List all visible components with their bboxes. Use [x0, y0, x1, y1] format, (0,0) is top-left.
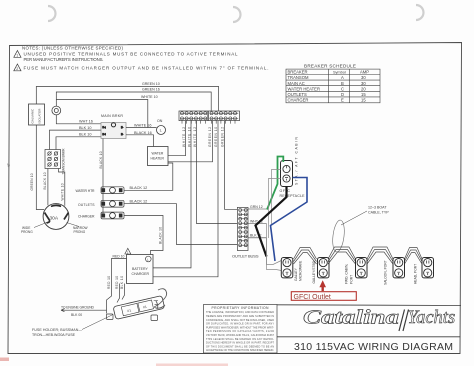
note 2 triangle — [14, 64, 21, 71]
outlet 3 fwd cabin — [345, 258, 368, 285]
svg-text:AMP: AMP — [360, 70, 369, 75]
punch hole left — [48, 6, 56, 21]
svg-text:OR DUPLICATED, IN WHOLE OR IN: OR DUPLICATED, IN WHOLE OR IN PART, FOR … — [206, 323, 274, 326]
outlet 4 saloon port — [384, 258, 405, 286]
svg-text:1: 1 — [16, 54, 18, 58]
wire white 10 label — [59, 169, 65, 206]
receptacle black thin wire — [269, 179, 281, 239]
svg-text:20: 20 — [361, 86, 366, 91]
svg-text:WATER HEATER: WATER HEATER — [288, 86, 321, 91]
title block frame — [277, 305, 461, 337]
buss wht wire to outlet1 — [267, 224, 282, 265]
receptacle white wire — [272, 170, 281, 226]
svg-text:WHITE 16: WHITE 16 — [134, 123, 152, 127]
svg-text:BLK 10: BLK 10 — [79, 126, 91, 130]
svg-text:SALOON, PORT: SALOON, PORT — [384, 260, 388, 285]
indicator lamp ON — [157, 119, 166, 135]
svg-text:FUSE HOLDER; BUSSMAN—: FUSE HOLDER; BUSSMAN— — [32, 328, 82, 332]
breaker schedule table — [286, 69, 380, 103]
svg-text:VICTORY BLVD, WOODLAND HILLS,: VICTORY BLVD, WOODLAND HILLS, CALIFORNIA… — [206, 334, 275, 337]
svg-text:30: 30 — [361, 81, 366, 86]
svg-text:GALLEY/STBD: GALLEY/STBD — [312, 260, 316, 283]
fuse holder — [113, 296, 165, 320]
terminal stud — [52, 106, 61, 115]
wire white 16 to lamp — [126, 123, 157, 127]
svg-text:Yachts: Yachts — [408, 308, 456, 328]
svg-text:OUTLETS: OUTLETS — [288, 92, 308, 97]
gfci outlet red box — [291, 292, 356, 301]
svg-text:310 115VAC WIRING DIAGRAM: 310 115VAC WIRING DIAGRAM — [294, 341, 453, 353]
svg-text:A: A — [341, 75, 344, 80]
svg-text:MAIN AC: MAIN AC — [288, 81, 305, 86]
outlet arcs 3-4 — [367, 247, 393, 264]
cable ellipse — [331, 219, 346, 252]
gfci red arrow — [319, 280, 326, 291]
handwritten squiggle — [155, 289, 167, 309]
svg-text:#1: #1 — [127, 308, 132, 313]
wire outlets breaker to buss — [124, 200, 237, 245]
svg-text:FUSE MUST MATCH CHARGER OUTPUT: FUSE MUST MATCH CHARGER OUTPUT AND BE IN… — [24, 65, 269, 70]
svg-text:HEATER: HEATER — [151, 157, 165, 161]
svg-text:WATER: WATER — [152, 152, 164, 156]
wire white 10 top — [56, 95, 157, 128]
strip stubs — [182, 121, 235, 124]
green wire to receptacle — [267, 157, 283, 210]
buss WHT stub — [248, 219, 267, 223]
pink scan mark bottom center — [156, 364, 228, 366]
svg-text:PORT: PORT — [350, 275, 354, 284]
wide prong label — [21, 223, 47, 235]
AC terminal strip — [179, 111, 240, 121]
wire white12 to water heater — [168, 121, 186, 156]
svg-text:BLK 10: BLK 10 — [79, 133, 91, 137]
svg-text:PER MANUFACTURER'S INSTRUCTION: PER MANUFACTURER'S INSTRUCTIONS. — [24, 57, 104, 62]
wire black 10 label — [43, 169, 48, 206]
fuse holder lug left — [107, 314, 114, 320]
svg-text:RED 10: RED 10 — [115, 276, 119, 289]
blue feed wire — [271, 178, 308, 262]
fuse holder lug right — [151, 315, 158, 321]
notes heading — [22, 45, 124, 50]
svg-text:B: B — [341, 81, 344, 86]
svg-text:+F: +F — [6, 163, 11, 168]
outlet arcs 4-5 — [405, 248, 423, 265]
svg-text:PRONG: PRONG — [21, 230, 33, 234]
strip wire labels — [182, 127, 225, 147]
svg-text:15: 15 — [361, 92, 366, 97]
svg-text:HEREIN ARE PROPRIETARY AND ARE: HEREIN ARE PROPRIETARY AND ARE SUBMITTED… — [206, 315, 274, 318]
svg-text:TRANSOM: TRANSOM — [288, 75, 309, 80]
buss GRN stub — [248, 205, 267, 209]
svg-text:RECEPTACLE: RECEPTACLE — [280, 194, 306, 198]
svg-text:TRON—HEB.W/20A FUSE: TRON—HEB.W/20A FUSE — [32, 333, 76, 337]
svg-text:PRONG: PRONG — [74, 230, 86, 234]
wire green12 to water heater — [168, 121, 213, 162]
svg-text:BREAKER: BREAKER — [288, 70, 308, 75]
water heater — [148, 147, 169, 166]
catalina yachts logo — [303, 307, 455, 331]
svg-text:30: 30 — [361, 75, 366, 80]
svg-text:ACCEPTANCE OF THE CONDITIONS S: ACCEPTANCE OF THE CONDITIONS SPECIFIED H… — [206, 349, 274, 352]
wire white10 to charger — [153, 121, 191, 268]
svg-text:DUCTIONS HEREOF IN WHOLE OR IN: DUCTIONS HEREOF IN WHOLE OR IN PART. REC… — [206, 342, 274, 345]
svg-text:WHITE 10: WHITE 10 — [141, 95, 158, 99]
svg-text:GREEN 10: GREEN 10 — [30, 173, 34, 190]
main breaker MAIN BRKR — [101, 114, 126, 139]
outlet arcs 1-2 — [294, 248, 317, 265]
galvanic isolator — [29, 104, 45, 125]
battery charger — [127, 255, 154, 284]
svg-text:12–3 BOAT: 12–3 BOAT — [368, 206, 387, 210]
fuse holder label — [32, 315, 113, 338]
wire black 16 — [126, 131, 154, 147]
outlet 5 head port — [414, 258, 434, 285]
svg-text:TEN PERMISSION OF CATALINA YAC: TEN PERMISSION OF CATALINA YACHTS, 21200 — [206, 330, 275, 333]
wire green10 to charger — [153, 121, 218, 277]
pink scan mark bottom left — [0, 358, 9, 362]
boat cable label — [341, 206, 389, 226]
svg-text:E: E — [341, 98, 344, 103]
svg-text:WATER HTR: WATER HTR — [76, 189, 96, 193]
gfic receptacle — [280, 136, 306, 198]
charger breaker — [78, 212, 124, 219]
svg-text:Catalina: Catalina — [303, 307, 399, 329]
left margin tick — [6, 163, 11, 168]
punch hole center — [233, 7, 241, 22]
svg-text:THE LICENSE, INFORMATION, AND: THE LICENSE, INFORMATION, AND DATA CONTA… — [206, 311, 274, 314]
buss BLK stub — [248, 234, 267, 238]
svg-text:RED 10: RED 10 — [107, 276, 111, 289]
svg-text:GALLEY: GALLEY — [294, 267, 298, 281]
narrow prong label — [67, 223, 88, 235]
breaker schedule title — [304, 63, 356, 68]
svg-text:OUTLETS: OUTLETS — [78, 203, 95, 207]
svg-text:GREEN 10: GREEN 10 — [214, 127, 218, 147]
svg-text:BLACK 10: BLACK 10 — [43, 172, 47, 189]
svg-text:Symbol: Symbol — [333, 71, 346, 75]
svg-text:TO ENGINE GROUND: TO ENGINE GROUND — [61, 306, 95, 310]
shore power inlet 30A — [43, 204, 69, 230]
svg-text:ON: ON — [157, 119, 163, 123]
outlets breaker — [78, 200, 124, 207]
svg-text:WHITE 10: WHITE 10 — [60, 183, 64, 200]
svg-text:GRN 12: GRN 12 — [250, 205, 263, 209]
wire green 16 — [56, 88, 211, 111]
drawing title — [294, 341, 453, 353]
proprietary information block — [204, 305, 278, 354]
svg-text:BLACK 10: BLACK 10 — [159, 227, 163, 244]
wire to engine ground — [61, 306, 107, 317]
svg-text:BLK 00: BLK 00 — [71, 313, 82, 317]
wire green12 to outlet buss — [225, 121, 238, 209]
svg-text:CHARGER: CHARGER — [78, 214, 95, 218]
svg-text:MICROWAVE: MICROWAVE — [299, 260, 303, 281]
svg-text:30A: 30A — [50, 216, 59, 222]
svg-text:OF THIS DOCUMENT SHALL BE DEEM: OF THIS DOCUMENT SHALL BE DEEMED TO BE A… — [206, 345, 274, 348]
svg-text:WHT 16: WHT 16 — [79, 120, 93, 124]
svg-text:PROPRIETARY INFORMATION: PROPRIETARY INFORMATION — [212, 306, 270, 310]
svg-text:CHARGER: CHARGER — [288, 98, 309, 103]
svg-text:GREEN 12: GREEN 12 — [208, 127, 212, 147]
breaker schedule text — [288, 70, 370, 103]
svg-text:GREEN 16: GREEN 16 — [142, 88, 160, 92]
svg-text:TRANSOM BRKR: TRANSOM BRKR — [62, 148, 66, 175]
svg-text:2: 2 — [16, 67, 18, 71]
wire blk 10 a — [50, 126, 102, 150]
wire green 10 label — [30, 173, 34, 190]
svg-text:ISOLATOR: ISOLATOR — [38, 108, 42, 124]
wire blk 10 b — [56, 133, 101, 150]
note 1 text — [24, 51, 238, 62]
black feed wire — [256, 187, 287, 257]
wire red10 charger bottom — [115, 276, 120, 303]
wire red10 charger left — [107, 255, 127, 314]
svg-text:GFIC: GFIC — [280, 189, 291, 193]
svg-text:BREAKER SCHEDULE: BREAKER SCHEDULE — [304, 63, 356, 68]
svg-text:GREEN 10: GREEN 10 — [142, 82, 160, 86]
svg-text:THIS LEGEND SHALL BE MARKED ON: THIS LEGEND SHALL BE MARKED ON ANY REPRO… — [206, 338, 274, 341]
svg-text:PURPOSES WHATSOEVER, WITHOUT T: PURPOSES WHATSOEVER, WITHOUT THE PRIOR W… — [206, 326, 274, 329]
svg-text:#1: #1 — [143, 305, 148, 310]
breaker bus vertical — [99, 139, 103, 216]
svg-text:FWD. CABIN,: FWD. CABIN, — [345, 264, 349, 284]
note 1 triangle — [14, 51, 21, 58]
svg-text:BLK 10: BLK 10 — [120, 276, 124, 289]
wire charger breaker to charger — [124, 216, 163, 255]
svg-text:GALVANIC: GALVANIC — [31, 108, 35, 124]
outlet arcs 2-3 — [328, 247, 356, 264]
svg-text:BLACK 12: BLACK 12 — [130, 186, 148, 190]
wire water heater breaker to heater — [124, 163, 173, 190]
svg-text:UNUSED POSITIVE TERMINALS MUST: UNUSED POSITIVE TERMINALS MUST BE CONNEC… — [24, 51, 238, 56]
svg-text:L: L — [147, 257, 149, 261]
buss blk wire to outlet1 — [267, 238, 282, 271]
wire blk10 charger bottom — [120, 276, 125, 300]
svg-text:RED 10: RED 10 — [113, 255, 125, 259]
wire green into inlet — [36, 125, 44, 210]
svg-text:HEAD, PORT: HEAD, PORT — [414, 264, 418, 284]
svg-text:BLACK 10: BLACK 10 — [99, 151, 103, 168]
svg-text:CHARGER: CHARGER — [132, 272, 150, 276]
svg-text:CONFIDENCE, AND SHALL NOT BE D: CONFIDENCE, AND SHALL NOT BE DISCLOSED, … — [206, 319, 274, 322]
punch hole right — [416, 5, 424, 20]
svg-text:BLACK 12: BLACK 12 — [130, 200, 148, 204]
svg-text:BATTERY: BATTERY — [132, 267, 148, 271]
svg-text:OUTLET BUSS: OUTLET BUSS — [232, 254, 259, 259]
svg-text:15: 15 — [361, 98, 366, 103]
svg-text:L: L — [160, 128, 163, 133]
svg-text:GREEN 12: GREEN 12 — [221, 127, 225, 147]
svg-text:CABLE, TYP: CABLE, TYP — [368, 211, 389, 215]
transom breaker strip — [45, 148, 66, 175]
outlet 2 galley/stbd — [312, 258, 329, 284]
svg-text:MAIN BRKR: MAIN BRKR — [101, 114, 123, 118]
svg-text:D: D — [341, 92, 344, 97]
outlet 1 galley/microwave — [281, 258, 302, 282]
svg-text:GFCI Outlet: GFCI Outlet — [294, 294, 331, 301]
note 2 ref triangle — [125, 248, 131, 254]
wire green 10 top — [36, 82, 218, 111]
wire wht 16 — [56, 115, 101, 124]
wire white12 to outlet buss — [197, 121, 238, 224]
svg-text:C: C — [341, 86, 344, 91]
outlet buss strip — [232, 207, 259, 258]
svg-text:BLACK 16: BLACK 16 — [134, 131, 152, 135]
svg-text:NOTES: (UNLESS OTHERWISE SPECI: NOTES: (UNLESS OTHERWISE SPECIFIED) — [22, 45, 124, 50]
note 2 text — [24, 65, 269, 70]
water heater breaker — [76, 187, 125, 194]
